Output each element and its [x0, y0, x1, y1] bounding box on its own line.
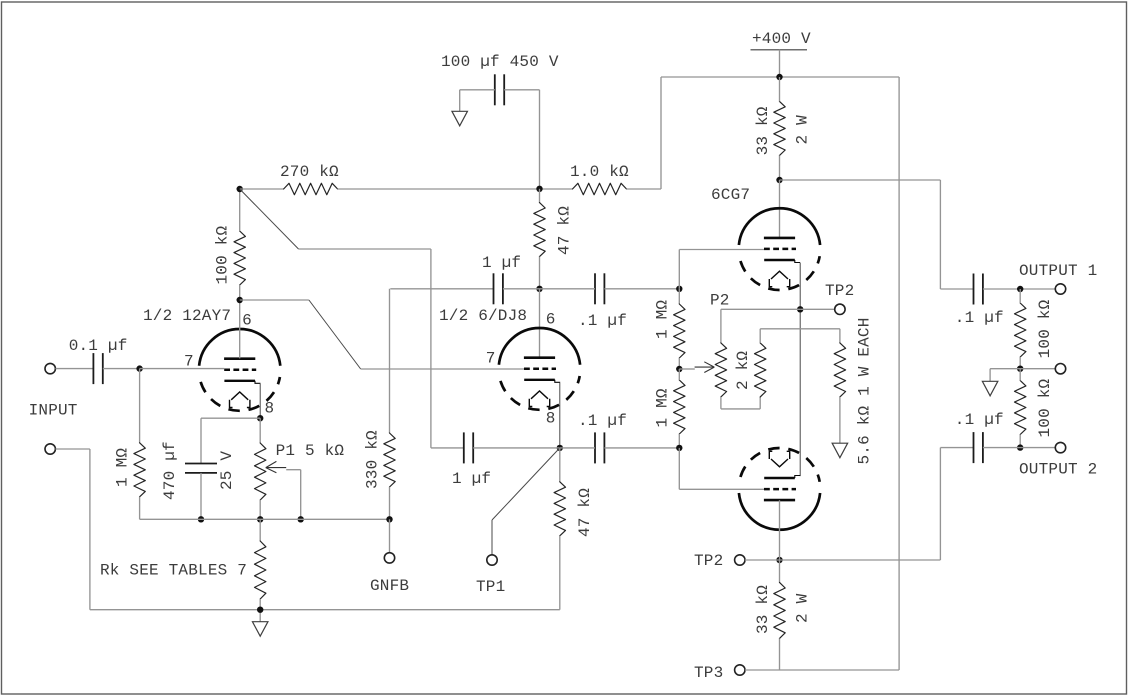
wire mid node to R1Mb [678, 369, 680, 380]
wire P1 bottom to bus [259, 500, 261, 519]
svg-text:6CG7: 6CG7 [711, 186, 750, 204]
svg-text:6: 6 [546, 311, 556, 329]
svg-text:1 MΩ: 1 MΩ [653, 300, 671, 339]
wire R5.6k to ground [839, 397, 841, 443]
wire output riser 2 up [939, 448, 941, 560]
wire diagonal feedback node [240, 189, 299, 249]
wire to V3 grid [679, 249, 764, 251]
svg-text:33 kΩ: 33 kΩ [754, 106, 772, 155]
svg-text:TP3: TP3 [694, 664, 723, 682]
svg-text:33 kΩ: 33 kΩ [754, 585, 772, 634]
wire TP2 node left to P2 [721, 308, 800, 310]
wire R2k bottom lead [759, 397, 761, 409]
wire plate node to R33k lower [779, 560, 781, 582]
capacitor .1uf output 2 [974, 432, 983, 463]
wire R1.0k to riser [627, 188, 662, 190]
wire bus to Rk [259, 519, 261, 541]
node output 2 [1017, 444, 1023, 450]
wire P1 wiper lead [286, 469, 301, 471]
svg-text:470 µf: 470 µf [161, 441, 179, 500]
capacitor 100uf 450V [495, 74, 504, 105]
wire V1 cathode lead [259, 383, 261, 418]
wire mid node to terminal [990, 368, 1055, 370]
resistor 330 kohm GNFB [384, 433, 395, 487]
svg-text:47 kΩ: 47 kΩ [556, 206, 574, 255]
resistor 5.6 kohm [834, 343, 845, 397]
junction GNFB at bus [386, 516, 392, 522]
input ground jack [45, 444, 55, 454]
resistor 270 kohm feedback [284, 183, 338, 194]
capacitor 1uf lower [464, 432, 473, 463]
svg-text:1 µf: 1 µf [452, 470, 491, 488]
svg-text:1 MΩ: 1 MΩ [114, 448, 132, 487]
svg-text:.1 µf: .1 µf [578, 312, 627, 330]
wire V3 cathode lead and bus [799, 263, 801, 476]
node output mid [1017, 366, 1023, 372]
svg-text:100 kΩ: 100 kΩ [1036, 378, 1054, 437]
wire R270k to B+ node [338, 188, 573, 190]
wire R2k to R5.6k top [760, 328, 840, 330]
node V2 plate [536, 286, 542, 292]
node V4 plate [776, 557, 782, 563]
svg-text:100 µf 450 V: 100 µf 450 V [441, 53, 559, 71]
svg-text:INPUT: INPUT [29, 402, 78, 420]
wire 100uf ground drop [459, 90, 461, 112]
resistor 100 kohm plate load V1 [234, 231, 245, 285]
svg-text:1 µf: 1 µf [482, 254, 521, 272]
wire cathode node to C.1uf lower [560, 447, 595, 449]
svg-text:2 kΩ: 2 kΩ [734, 351, 752, 390]
svg-text:47 kΩ: 47 kΩ [576, 488, 594, 537]
wire node B down [678, 448, 680, 489]
wire +400V rail [661, 76, 899, 78]
wire C.1uf lower to grid node B [604, 447, 679, 449]
node wiper mid [676, 366, 682, 372]
wire plate node to output riser 2 [780, 559, 941, 561]
wire ground jack down [89, 449, 91, 610]
wire R100k o2 top lead [1019, 369, 1021, 381]
svg-text:Rk SEE TABLES 7: Rk SEE TABLES 7 [100, 562, 247, 580]
wire P1 wiper down [300, 470, 302, 520]
capacitor .1uf lower [595, 432, 604, 463]
cathode bus wire [140, 518, 390, 520]
svg-text:TP2: TP2 [825, 282, 854, 300]
wire R47k to V2 plate node [539, 257, 541, 289]
junction P1 wiper at bus [298, 516, 304, 522]
svg-text:100 kΩ: 100 kΩ [1036, 299, 1054, 358]
wire R330k to bus [389, 487, 391, 519]
svg-text:+400 V: +400 V [752, 30, 811, 48]
wire output riser 1 down [939, 180, 941, 289]
wire R2k top lead [759, 329, 761, 343]
input signal jack [45, 363, 55, 373]
wire plate node to output riser [780, 179, 941, 181]
resistor 1.0 kohm [573, 183, 627, 194]
junction P1 at bus [257, 516, 263, 522]
svg-text:2 W: 2 W [794, 593, 812, 623]
svg-text:.1 µf: .1 µf [955, 411, 1004, 429]
wire R33k lower to TP3 line [779, 638, 781, 670]
wire feedback down left vertical [430, 249, 432, 448]
wire node A to R 1M a [678, 289, 680, 304]
wire feedback horizontal [299, 248, 431, 250]
terminal OUTPUT 2 [1055, 442, 1065, 452]
wire cathode node left [201, 417, 260, 419]
wire right rail down to TP3 [898, 77, 900, 670]
svg-text:1.0 kΩ: 1.0 kΩ [570, 163, 629, 181]
svg-text:.1 µf: .1 µf [955, 309, 1004, 327]
wire GNFB corner to C 1uf [390, 288, 493, 290]
wire C out1 to terminal [983, 288, 1055, 290]
ground symbol below Rk [252, 622, 268, 637]
terminal mid [1055, 364, 1065, 374]
node V2 cathode [557, 445, 563, 451]
svg-text:.1 µf: .1 µf [578, 412, 627, 430]
terminal TP1 [487, 555, 497, 565]
resistor 47 kohm cathode V2 [554, 482, 565, 536]
wire lower left vertical to C 1uf [431, 447, 464, 449]
triode V4 1/2 6CG7 lower [739, 448, 820, 530]
wire input jack to C1 [56, 368, 94, 370]
wire TP1 vertical [491, 520, 493, 555]
wire P2 bottom lead [720, 397, 722, 409]
wire V2 plate lead [539, 289, 541, 358]
node feedback top [237, 186, 243, 192]
wire diagonal plate to V2 grid [309, 300, 361, 369]
resistor 33 kohm 2W upper [774, 101, 785, 155]
resistor 33 kohm 2W lower [774, 582, 785, 638]
wire V4 plate lead [779, 500, 781, 560]
wire C out2 to terminal [983, 447, 1055, 449]
svg-text:1/2 12AY7: 1/2 12AY7 [143, 307, 231, 325]
wire V1 plate lead [239, 300, 241, 358]
wire ground jack [56, 448, 90, 450]
ground symbol 100uf [452, 111, 468, 126]
resistor 1 Mohm grid leak [134, 443, 145, 497]
wire node to R 270k [240, 188, 284, 190]
triode V3 1/2 6CG7 upper [739, 208, 820, 290]
node V3 plate [776, 177, 782, 183]
wire C 470uf to bus [200, 473, 202, 519]
node V1 plate [237, 297, 243, 303]
node +400V [776, 74, 782, 80]
wire TP3 to right rail [745, 669, 899, 671]
svg-text:0.1 µf: 0.1 µf [69, 337, 128, 355]
potentiometer P1 body 5k [255, 443, 266, 500]
wire V3 plate lead [779, 180, 781, 238]
wire +400V stub [779, 50, 781, 77]
wire P2 top lead [720, 309, 722, 343]
wire TP1 diagonal [492, 448, 560, 520]
svg-text:P1 5 kΩ: P1 5 kΩ [276, 442, 345, 460]
wire riser up [660, 77, 662, 189]
wire R33k to plate node V3 [779, 155, 781, 180]
wire R1Mb to node B [678, 434, 680, 448]
junction Rk at ground bus [257, 607, 263, 613]
svg-text:TP1: TP1 [476, 578, 505, 596]
wire +400 node to R33k [779, 77, 781, 101]
wire 100k top lead [239, 189, 241, 231]
wire riser to C out1 [940, 288, 973, 290]
wire to V2 grid pin 7 [361, 368, 524, 370]
wire R100k o1 bottom lead [1019, 357, 1021, 369]
wire plate node right [240, 299, 309, 301]
node B lower grid [676, 445, 682, 451]
wire C1uf lower to cathode node [473, 447, 560, 449]
wire R47k lower to ground bus [559, 536, 561, 610]
wire R100k o1 top lead [1019, 289, 1021, 303]
wire grid node down to R 1M [139, 369, 141, 443]
node cathode bus TP2 [797, 306, 803, 312]
node B+ decouple [536, 186, 542, 192]
svg-text:7: 7 [184, 353, 194, 371]
node grid V1 [136, 365, 142, 371]
wire cathode node to P1 [259, 418, 261, 443]
svg-text:TP2: TP2 [694, 552, 723, 570]
svg-text:6: 6 [242, 312, 252, 330]
resistor Rk cathode [255, 541, 266, 599]
svg-text:OUTPUT 2: OUTPUT 2 [1019, 461, 1097, 479]
wire GNFB drop [389, 289, 391, 433]
ground symbol output [982, 381, 998, 396]
wire TP2 lower to plate node [745, 559, 780, 561]
wire C1uf to plate node [503, 288, 540, 290]
triode V2 1/2 6DJ8 [499, 328, 580, 410]
terminal OUTPUT 1 [1055, 284, 1065, 294]
terminal TP2 lower [735, 555, 745, 565]
capacitor .1uf coupling top [595, 273, 604, 304]
wire down to C 470uf [200, 418, 202, 463]
svg-text:8: 8 [546, 410, 556, 428]
P1 wiper arrow [266, 461, 286, 472]
capacitor 470uf 25V cathode bypass [185, 464, 217, 473]
wire 100uf right [504, 89, 539, 91]
svg-text:270 kΩ: 270 kΩ [280, 163, 339, 181]
svg-text:2 W: 2 W [794, 115, 812, 145]
terminal TP2 upper [835, 304, 845, 314]
wire C1 to grid node [103, 368, 140, 370]
terminal GNFB [384, 553, 394, 563]
wire node A up [678, 250, 680, 289]
svg-text:GNFB: GNFB [370, 577, 409, 595]
resistor 100 kohm out upper [1015, 303, 1026, 357]
wire 100uf left [460, 89, 495, 91]
capacitor .1uf output 1 [974, 274, 983, 305]
resistor 100 kohm out lower [1015, 381, 1026, 435]
wire R5.6k top lead [839, 329, 841, 343]
wire to V4 grid [679, 488, 764, 490]
node V1 cathode pin 8 [257, 415, 263, 421]
wire R100k to plate node [239, 285, 241, 300]
wire riser2 to C out2 [940, 447, 973, 449]
svg-text:OUTPUT 1: OUTPUT 1 [1019, 262, 1097, 280]
wire V2 cathode lead [559, 383, 561, 448]
P2 wiper arrow [695, 362, 715, 373]
ground bus wire bottom [90, 609, 560, 611]
wire plate node to C.1uf [540, 288, 596, 290]
node A upper grid [676, 286, 682, 292]
wire C.1uf to grid node A [604, 288, 679, 290]
capacitor C1 0.1uf input [93, 353, 102, 384]
underline +400 V [751, 49, 808, 51]
svg-text:P2: P2 [710, 292, 730, 310]
svg-text:100 kΩ: 100 kΩ [214, 225, 232, 284]
node output 1 [1017, 286, 1023, 292]
svg-text:25 V: 25 V [218, 451, 236, 490]
terminal TP3 [735, 665, 745, 675]
wire P2 to R2k bottom [721, 408, 760, 410]
wire R100k o2 bottom lead [1019, 435, 1021, 448]
svg-text:1/2 6/DJ8: 1/2 6/DJ8 [439, 307, 527, 325]
wire TP2 node to terminal [800, 308, 835, 310]
resistor 2 kohm [755, 343, 766, 397]
wire bus to GNFB terminal [389, 519, 391, 552]
wire P2 wiper lead [679, 368, 695, 370]
potentiometer P2 body 2k [715, 343, 726, 397]
wire cathode node to R47k lower [559, 448, 561, 482]
wire R 1M to cathode bus [139, 497, 141, 520]
wire node to R47k top [539, 189, 541, 203]
svg-text:8: 8 [265, 400, 275, 418]
junction 470uf at bus [198, 516, 204, 522]
capacitor 1uf coupling top [494, 273, 503, 304]
ground symbol 5.6k [832, 443, 848, 458]
wire 100uf down to node [539, 90, 541, 189]
resistor 1 Mohm lower [674, 380, 685, 434]
svg-text:7: 7 [486, 350, 496, 368]
resistor 1 Mohm upper [674, 304, 685, 358]
svg-text:5.6 kΩ 1 W EACH: 5.6 kΩ 1 W EACH [856, 317, 874, 464]
svg-text:330 kΩ: 330 kΩ [364, 430, 382, 489]
resistor 47 kohm plate load V2 [534, 203, 545, 257]
wire mid ground drop [989, 369, 991, 382]
wire Rk to ground [259, 599, 261, 622]
svg-text:1 MΩ: 1 MΩ [653, 388, 671, 427]
wire R1Ma to mid node [678, 358, 680, 369]
wire grid node to V1 grid pin 7 [140, 368, 225, 370]
triode V1 1/2 12AY7 [199, 329, 280, 411]
